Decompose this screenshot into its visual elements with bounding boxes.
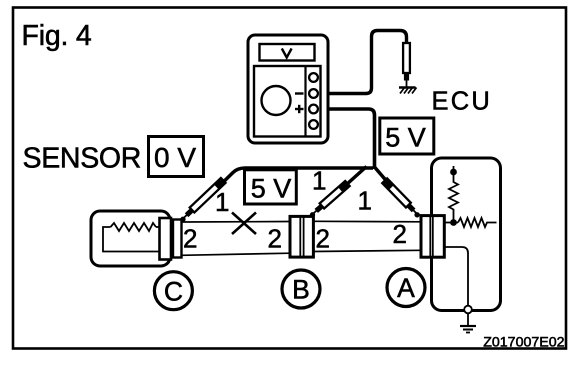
probe P0 on body ground point (403, 43, 410, 87)
svg-text:0 V: 0 V (154, 142, 196, 173)
ECU internal pull-up stem (453, 166, 455, 171)
harness wire 1 segment C-B (top) (182, 221, 291, 224)
svg-text:1: 1 (358, 186, 372, 216)
multimeter V1 body (248, 35, 328, 143)
svg-text:2: 2 (393, 219, 407, 249)
sensor resistor top lead (156, 226, 160, 228)
ECU internal pull-up node dot (450, 169, 457, 176)
sensor resistor loop lead to terminal 2 (103, 227, 160, 252)
svg-text:5 V: 5 V (251, 174, 292, 204)
connector label A (387, 269, 425, 307)
probe P1 on connector C terminal 1 (178, 177, 226, 223)
harness wire 2 segment B-A (bottom) (313, 250, 422, 251)
open-circuit X mark on wire 1 (232, 213, 256, 235)
sensor internal resistor (111, 223, 157, 231)
ECU box (432, 158, 501, 311)
ECU pull-up resistor R1 (vertical) (449, 172, 458, 223)
harness wire 1 segment B-A (top) (313, 220, 422, 223)
svg-text:2: 2 (183, 224, 197, 254)
ground pass-through node on ECU case (464, 306, 472, 314)
harness wire 2 segment C-B (bottom) (182, 253, 291, 255)
multimeter panel (254, 66, 321, 137)
svg-text:2: 2 (316, 223, 330, 253)
wire: branch from vertex to connector A probe (375, 167, 403, 199)
body ground symbol (460, 326, 476, 333)
connector A (421, 216, 444, 258)
wire: branch from vertex left toward connector C probe (210, 168, 373, 195)
body ground contact hatch (399, 88, 417, 94)
wire: branch from vertex to connector B probe (332, 167, 367, 198)
plus polarity label (295, 105, 304, 113)
connector label C (154, 272, 192, 310)
junction node at terminal 1 (450, 219, 457, 226)
value box 0V (sensor side) (149, 137, 204, 177)
multimeter jack 1 (309, 73, 318, 82)
svg-text:B: B (292, 275, 310, 305)
svg-text:SENSOR: SENSOR (23, 143, 142, 175)
multimeter display (260, 44, 315, 61)
connector B (290, 216, 313, 257)
wire: negative lead from jack 2 up and over to ground probe (328, 31, 407, 94)
wire: node to body ground (467, 314, 469, 326)
connector label B (282, 270, 320, 308)
connector C (160, 218, 182, 260)
svg-text:ECU: ECU (432, 88, 492, 116)
ECU series resistor R2 (horizontal) (458, 218, 497, 227)
multimeter jack column divider (304, 66, 306, 137)
multimeter jack 4 (309, 120, 318, 129)
sensor body (91, 211, 170, 266)
svg-text:C: C (164, 276, 183, 306)
svg-text:A: A (397, 273, 415, 303)
svg-text:Z017007E02: Z017007E02 (483, 335, 564, 351)
svg-text:Fig. 4: Fig. 4 (22, 20, 92, 52)
probe P3 on connector A terminal 1 (382, 178, 422, 219)
value box 5V (middle) (245, 170, 297, 204)
value box 5V (ECU side) (380, 118, 434, 154)
wire: positive lead from jack 3 down to probe vertex (328, 109, 375, 169)
svg-text:5 V: 5 V (385, 123, 426, 153)
minus polarity label (295, 92, 304, 94)
svg-text:1: 1 (312, 166, 326, 196)
wire: connector A terminal 2 to ECU ground (443, 247, 468, 306)
multimeter jack 2 (negative) (309, 89, 318, 98)
multimeter jack 3 (positive) (309, 105, 318, 114)
multimeter dial (262, 86, 291, 115)
wire: connector A terminal 1 into ECU (443, 222, 458, 224)
svg-text:2: 2 (268, 224, 282, 254)
svg-text:1: 1 (215, 187, 229, 217)
probe P2 on connector B terminal 1 (308, 180, 351, 219)
